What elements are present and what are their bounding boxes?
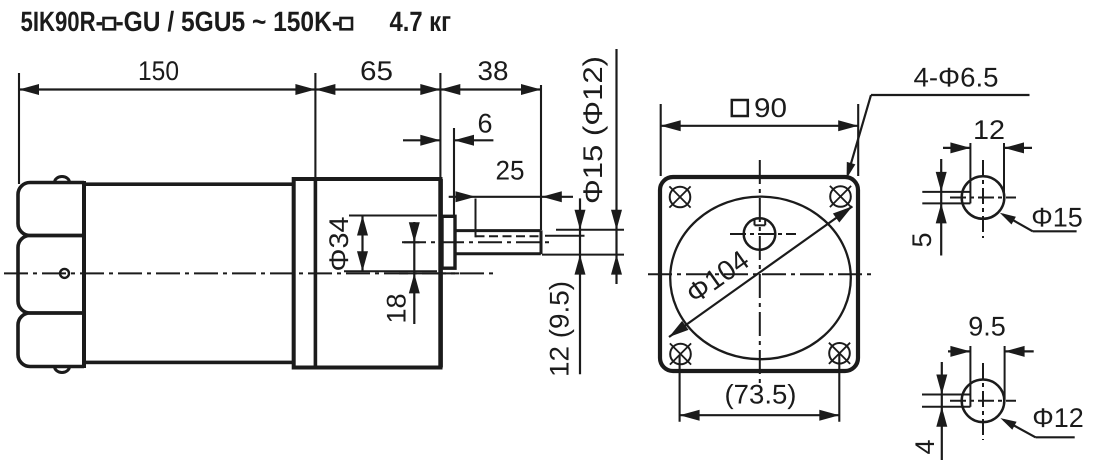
- flat extension short tick: [545, 235, 585, 237]
- dim 6 right line: [454, 139, 493, 141]
- 12(9.5) down arrow: [575, 210, 586, 230]
- keyway bottom edge: [755, 224, 766, 226]
- title square symbol 1: [104, 18, 116, 29]
- dim 6 right arrow: [454, 135, 474, 146]
- dim sq90 line: [661, 125, 859, 127]
- svg-text:4.7 кг: 4.7 кг: [390, 6, 452, 37]
- phi15(phi12) up arrow: [611, 255, 622, 275]
- 9.5 left arrow: [950, 346, 970, 357]
- svg-text:-GU / 5GU5 ~ 150K-: -GU / 5GU5 ~ 150K-: [116, 6, 341, 37]
- svg-text:5IK90R-: 5IK90R-: [21, 6, 104, 37]
- dim 9.5 left line: [948, 350, 970, 352]
- bolt hole bottom-left: [670, 344, 691, 365]
- 73.5 left arrow: [680, 410, 700, 421]
- bolt hole top-left: [670, 187, 691, 208]
- shaft flat hidden line: [476, 235, 540, 237]
- 18-dim lower extension tick: [399, 272, 459, 274]
- dim 12(9.5) line: [579, 198, 581, 374]
- svg-text:4-Φ6.5: 4-Φ6.5: [914, 62, 999, 92]
- 4 up arrow: [936, 407, 947, 427]
- 4-phi6.5 leader arrow: [847, 162, 856, 179]
- 73.5 left extension: [679, 355, 681, 422]
- phi15 flat lower line: [922, 202, 970, 204]
- dim 6 left arrow: [420, 135, 440, 146]
- phi12 leader line: [1004, 420, 1036, 438]
- 12 right extension: [1003, 143, 1005, 198]
- dim 73.5 line: [680, 414, 840, 416]
- dim 9.5 right line: [1005, 350, 1034, 352]
- 12 right arrow: [1004, 142, 1024, 153]
- dim 4 line: [941, 362, 943, 460]
- dim 65 line: [315, 88, 440, 90]
- phi15 label underline: [1033, 230, 1077, 232]
- svg-text:12 (9.5): 12 (9.5): [545, 281, 575, 377]
- 18 down arrow: [409, 222, 420, 242]
- bolt hole top-left cross 1: [669, 186, 690, 207]
- 12 left arrow: [950, 142, 970, 153]
- dim phi15(phi12) line: [615, 49, 617, 284]
- top screw bump: [55, 177, 70, 183]
- svg-text:Φ34: Φ34: [324, 217, 354, 272]
- dim 25 right arrow: [542, 191, 562, 202]
- svg-text:Φ15: Φ15: [1031, 202, 1083, 232]
- dim 65 left arrow: [315, 84, 335, 95]
- dim 65 right arrow: [420, 84, 440, 95]
- front shaft horizontal centerline: [730, 233, 796, 235]
- shaft top extension tick: [556, 229, 624, 231]
- motor rear cap lobe 1: [18, 183, 84, 236]
- gearbox output face: [438, 179, 443, 368]
- phi34 top tick: [349, 215, 437, 217]
- phi15 flat upper line: [922, 191, 970, 193]
- phi15 detail horizontal centerline: [950, 197, 1016, 199]
- motor rear cap lobe 2: [18, 236, 84, 314]
- phi12 detail vertical centerline: [982, 363, 984, 440]
- 18 top tick: [404, 241, 420, 243]
- shaft bottom extension tick: [542, 254, 624, 256]
- dim 18 line: [413, 222, 415, 324]
- 4-phi6.5 leader diagonal: [849, 95, 872, 172]
- bolt hole bottom-left cross 1: [670, 343, 691, 364]
- keyway right edge: [764, 220, 766, 226]
- svg-text:38: 38: [478, 56, 509, 86]
- 150/65 shared extension: [314, 73, 316, 179]
- phi15 leader line: [1003, 215, 1033, 232]
- dim 150 line: [19, 88, 315, 90]
- sq90 right arrow: [838, 120, 858, 131]
- bottom screw bump: [55, 367, 70, 373]
- sq90 left extension: [660, 104, 662, 176]
- 4 down arrow: [936, 375, 947, 395]
- phi34 up arrow: [357, 216, 368, 236]
- phi104 upper-right arrow: [833, 206, 853, 222]
- dim 150 right arrow: [295, 84, 315, 95]
- keyway left edge: [754, 220, 756, 226]
- 5 up arrow: [936, 203, 947, 223]
- 9.5 right arrow: [1005, 346, 1025, 357]
- phi15(phi12) down arrow: [611, 210, 622, 230]
- svg-text:4: 4: [910, 439, 940, 454]
- sq90 right extension: [857, 104, 859, 176]
- svg-text:150: 150: [138, 56, 179, 86]
- 73.5 right extension: [838, 353, 840, 422]
- flange-gearbox boundary: [314, 179, 318, 368]
- bolt hole top-left cross 2: [669, 186, 690, 207]
- dim 5 line: [940, 159, 942, 256]
- sq90 left arrow: [661, 120, 681, 131]
- front view vertical centerline: [759, 160, 761, 385]
- svg-text:65: 65: [360, 56, 393, 86]
- dim 38 line: [440, 88, 541, 90]
- svg-text:12: 12: [973, 115, 1005, 145]
- 73.5 right arrow: [819, 410, 839, 421]
- phi12 label underline: [1036, 436, 1075, 438]
- front view horizontal centerline: [648, 273, 872, 275]
- bolt hole top-right: [830, 186, 851, 207]
- dim 150 left arrow: [19, 84, 39, 95]
- output shaft circle front: [744, 218, 776, 250]
- bolt hole bottom-left cross 2: [670, 343, 691, 364]
- phi15 flat chord / 12 left extension: [969, 143, 971, 203]
- phi12 leader arrow: [1000, 418, 1016, 430]
- motor body circle phi104: [670, 197, 851, 360]
- 4-phi6.5 underline: [871, 94, 1030, 96]
- shaft end view circle phi15: [962, 176, 1005, 219]
- shaft end edge: [540, 230, 543, 254]
- svg-text:Φ104: Φ104: [680, 244, 754, 309]
- svg-text:9.5: 9.5: [968, 312, 1006, 342]
- 65/38 shared extension: [439, 73, 441, 179]
- svg-text:5: 5: [907, 232, 937, 247]
- motor body: [84, 184, 294, 362]
- phi34 bottom tick: [344, 270, 437, 272]
- bolt hole bottom-right cross 2: [829, 343, 850, 364]
- bolt hole top-right cross 2: [830, 186, 851, 207]
- dim 12 left line: [943, 147, 970, 149]
- svg-text:(73.5): (73.5): [725, 379, 797, 409]
- phi34 down arrow: [357, 251, 368, 271]
- svg-text:90: 90: [754, 93, 787, 123]
- phi104 lower-left arrow: [669, 321, 689, 337]
- title square symbol 2: [341, 18, 353, 29]
- gearbox front face square: [660, 177, 858, 371]
- phi12 detail horizontal centerline: [950, 400, 1016, 402]
- motor rear cap lobe 3: [18, 313, 84, 367]
- gearbox housing: [294, 179, 441, 368]
- shaft bottom edge: [455, 252, 541, 255]
- dim phi104 diagonal line: [669, 206, 852, 337]
- 12(9.5) up arrow: [575, 255, 586, 275]
- sq90 square symbol: [732, 100, 748, 116]
- dim 25 left arrow: [456, 191, 476, 202]
- phi15 detail vertical centerline: [982, 160, 984, 238]
- phi12 flat lower line: [922, 406, 970, 408]
- motor centerline: [4, 272, 497, 274]
- dim 12 right line: [1004, 147, 1032, 149]
- 6 right extension (boss face): [453, 128, 455, 216]
- phi12 flat chord / 9.5 left extension: [969, 346, 971, 407]
- svg-text:25: 25: [496, 156, 525, 186]
- 38 right extension / shaft end: [540, 85, 542, 230]
- shaft centerline: [402, 241, 554, 243]
- rear cap center hole: [60, 269, 69, 278]
- svg-text:18: 18: [382, 293, 412, 323]
- shaft end view circle phi12: [962, 380, 1005, 423]
- bolt hole bottom-right: [829, 343, 850, 364]
- 5 down arrow: [936, 172, 947, 192]
- dim 38 right arrow: [521, 84, 541, 95]
- phi15 leader arrow: [1000, 213, 1016, 225]
- rear cap right edge: [82, 181, 86, 368]
- dim 25 line: [449, 196, 573, 198]
- output shaft boss: [442, 216, 455, 268]
- svg-text:Φ12: Φ12: [1032, 403, 1084, 433]
- bolt hole bottom-right cross 1: [829, 343, 850, 364]
- dim phi34 line: [361, 216, 363, 272]
- phi12 flat upper line: [922, 394, 970, 396]
- dim 38 left arrow: [440, 84, 460, 95]
- dim 6 left line: [403, 139, 440, 141]
- svg-text:6: 6: [477, 109, 492, 139]
- 9.5 right extension: [1004, 346, 1006, 401]
- bolt hole top-right cross 1: [830, 186, 851, 207]
- 18 up arrow: [409, 273, 420, 293]
- flat start / 25-dim extension: [475, 199, 477, 238]
- svg-text:Φ15 (Φ12): Φ15 (Φ12): [578, 56, 608, 204]
- shaft top edge: [455, 229, 541, 232]
- 150 left extension: [18, 73, 20, 184]
